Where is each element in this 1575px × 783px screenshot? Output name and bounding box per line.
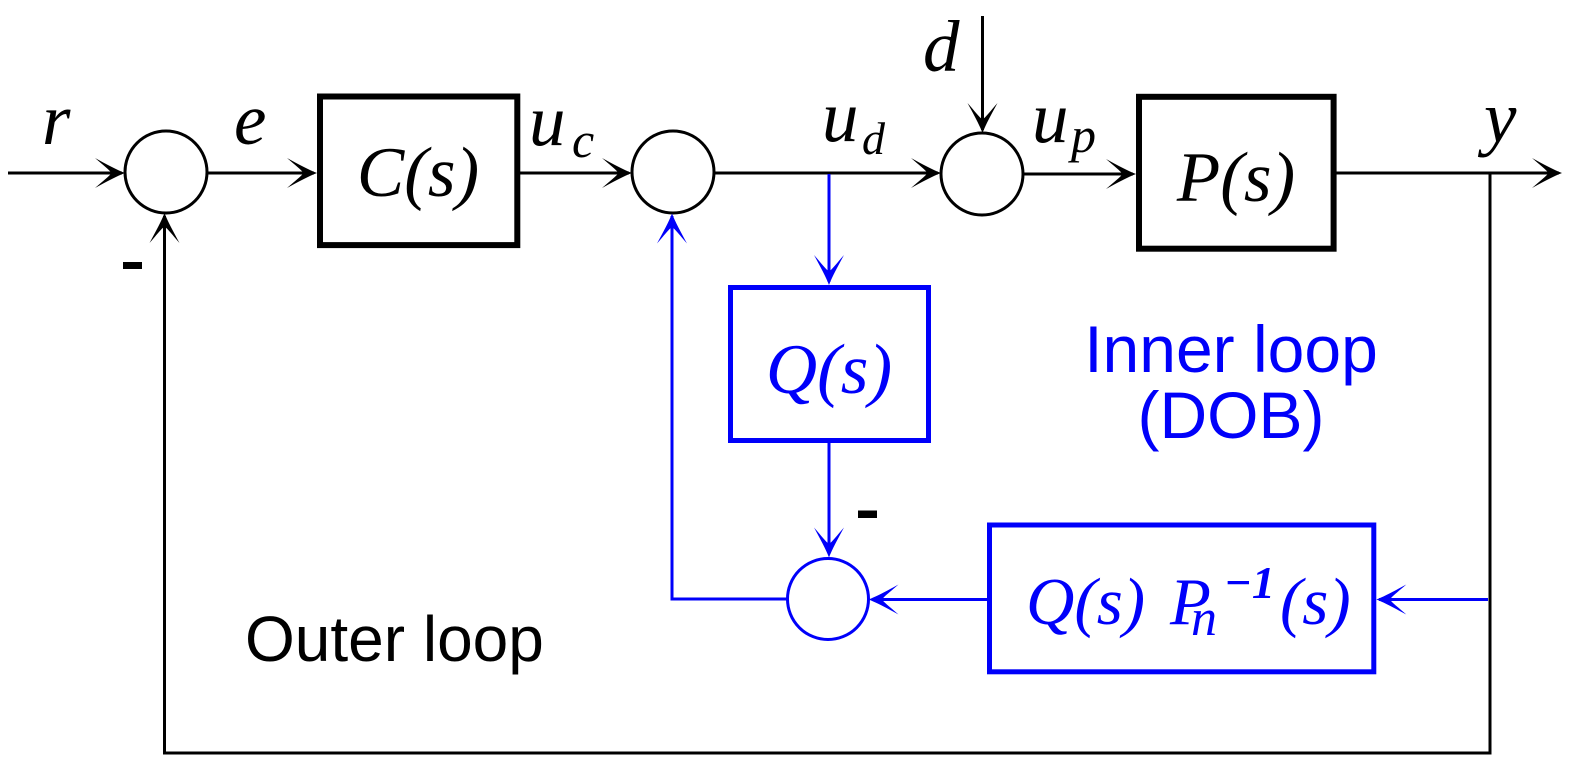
svg-text:r: r <box>42 79 71 160</box>
svg-text:(s): (s) <box>1280 565 1351 639</box>
svg-text:Q(s): Q(s) <box>766 331 892 409</box>
blue arrowhead into S4 from above <box>814 528 844 558</box>
svg-text:Inner loop: Inner loop <box>1084 312 1378 386</box>
blue arrowhead into Q(s)Pn^-1(s) <box>1376 585 1406 615</box>
wire u_c <box>520 172 629 175</box>
blue wire from Q(s)Pn^-1(s) to S4 <box>872 598 987 601</box>
svg-text:(DOB): (DOB) <box>1138 378 1325 452</box>
output wire y <box>1336 172 1559 175</box>
svg-text:u: u <box>822 76 859 157</box>
arrowhead into summing junction S3 <box>911 158 941 188</box>
blue arrowhead into S2 from below <box>657 214 687 244</box>
blue wire vertical up to S2 <box>671 216 674 601</box>
block P(s) <box>1139 97 1334 249</box>
outer loop feedback wire right vertical <box>1489 173 1492 753</box>
svg-text:u: u <box>1032 77 1069 158</box>
svg-text:u: u <box>529 80 566 161</box>
block Q(s)Pn^-1(s) <box>990 525 1374 672</box>
svg-text:d: d <box>862 113 886 164</box>
output arrowhead y <box>1532 158 1562 188</box>
svg-text:p: p <box>1068 107 1096 163</box>
wire e <box>207 172 314 175</box>
wire r input <box>8 172 122 175</box>
svg-text:P(s): P(s) <box>1176 139 1295 217</box>
blue arrowhead into Q(s) <box>814 255 844 285</box>
svg-text:c: c <box>572 112 594 168</box>
blue wire from u_d node down to Q(s) <box>828 174 831 282</box>
svg-text:n: n <box>1191 590 1217 647</box>
blue arrowhead into S4 from right <box>869 585 899 615</box>
arrowhead into S1 from below <box>150 213 180 243</box>
wire u_p <box>1023 173 1133 176</box>
blue wire from S4 left toward S2 <box>671 598 788 601</box>
svg-text:−1: −1 <box>1224 557 1275 608</box>
outer loop feedback wire bottom <box>163 752 1492 755</box>
wire u_d <box>714 172 938 175</box>
arrowhead into summing junction S1 <box>95 158 125 188</box>
summing junction S4 (blue) <box>788 559 869 640</box>
minus sign at S1 <box>123 262 142 269</box>
block C(s) <box>320 97 517 246</box>
arrowhead of d into S3 <box>968 103 998 133</box>
summing junction S1 <box>125 131 207 213</box>
blue wire from y feedback into Q(s)Pn^-1(s) <box>1379 598 1488 601</box>
svg-text:d: d <box>923 6 960 87</box>
minus sign at S4 <box>858 511 877 519</box>
svg-text:Outer loop: Outer loop <box>245 603 544 675</box>
arrowhead into summing junction S2 <box>602 158 632 188</box>
svg-text:Q(s): Q(s) <box>1026 565 1145 639</box>
summing junction S3 <box>941 133 1023 215</box>
outer loop feedback wire left vertical <box>163 216 166 755</box>
arrowhead into P(s) <box>1106 159 1136 189</box>
summing junction S2 <box>632 131 714 213</box>
disturbance wire d <box>981 16 984 130</box>
svg-text:e: e <box>234 79 266 160</box>
block Q(s) <box>731 288 929 441</box>
svg-text:C(s): C(s) <box>357 134 479 212</box>
blue wire from Q(s) down to summing junction S4 <box>828 443 831 554</box>
arrowhead into C(s) <box>287 158 317 188</box>
